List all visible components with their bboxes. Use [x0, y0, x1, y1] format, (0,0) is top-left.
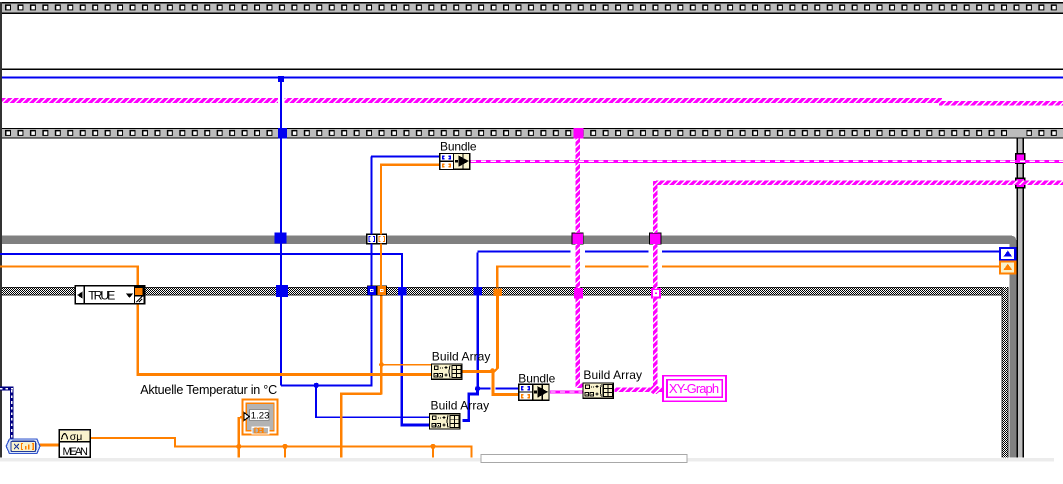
- junction blue dot: [314, 383, 319, 388]
- svg-text:XY-Graph: XY-Graph: [669, 381, 719, 396]
- junction orange dot thin branch: [379, 362, 384, 367]
- node build array 2: [583, 383, 613, 398]
- black structure edge line: [0, 68, 1063, 70]
- svg-text:Build Array: Build Array: [583, 368, 642, 382]
- wire orange right to shift register: [498, 265, 1001, 267]
- svg-text:1.23: 1.23: [251, 410, 270, 421]
- svg-text:Bundle: Bundle: [518, 371, 555, 385]
- shift register orange: [1000, 261, 1015, 273]
- wire blue right to shift register: [478, 251, 1001, 253]
- diagram left border: [0, 2, 2, 458]
- wire orange mean output bus: [91, 437, 177, 439]
- shift register blue: [1000, 248, 1015, 260]
- numeric control 1.23 DBL: [243, 400, 278, 436]
- wire blue from dot down: [315, 385, 317, 416]
- svg-text:Build Array: Build Array: [432, 349, 491, 363]
- tunnel blue large on case border: [276, 285, 288, 297]
- indexing tunnel blue bracket on loop bar: [367, 234, 377, 243]
- wire blue thick into build array 3: [400, 424, 429, 427]
- tunnel magenta hollow m5 on case border: [652, 289, 660, 298]
- wire orange queue to mean: [40, 443, 59, 446]
- wire blue into bundle1: [371, 155, 439, 157]
- junction blue dot 2: [475, 386, 480, 391]
- wire magenta vertical m2: [576, 139, 581, 233]
- node dequeue element: [6, 439, 40, 454]
- wire blue left long: [0, 253, 402, 255]
- indexing tunnel orange bracket on loop bar: [377, 234, 387, 243]
- node build array 1: [432, 364, 462, 379]
- flat sequence film band 2: [0, 129, 1063, 137]
- tunnel blue on film band 2: [278, 128, 287, 138]
- wire blue thin to build array 3: [315, 416, 429, 418]
- tunnel blue b8 on case border: [474, 287, 482, 295]
- wire orange down through selector tunnel: [137, 265, 139, 287]
- wire magenta thick into build array 2: [615, 387, 664, 392]
- tunnel orange on selector: [135, 287, 143, 296]
- wire orange build array 1 output: [462, 370, 493, 373]
- wire orange into bundle2: [492, 393, 519, 396]
- node build array 3: [430, 414, 460, 429]
- tunnel blue on loop top bar: [275, 233, 287, 244]
- wire blue dot2 to bundle2: [478, 388, 519, 390]
- while loop border gray: [0, 235, 1017, 457]
- wire orange left horizontal: [0, 265, 139, 267]
- wire orange into bundle1: [381, 164, 439, 166]
- gap for orange crossing: [491, 387, 496, 390]
- wire navy dashed queue refnum: [0, 387, 14, 439]
- case selector label: [75, 286, 144, 304]
- wire blue riser to bundle: [371, 295, 373, 385]
- junction magenta knot: [650, 385, 659, 394]
- junction orange dot bus 2: [282, 444, 287, 449]
- wire orange riser through tunnels: [380, 164, 382, 235]
- wire orange bus stubs: [238, 446, 240, 457]
- wire orange thick to build array 1: [137, 373, 432, 376]
- bottom scroll strip: [0, 458, 1054, 462]
- case structure right border: [1002, 287, 1009, 458]
- terminal xy-graph: [663, 376, 726, 401]
- svg-text:DBL: DBL: [254, 426, 267, 435]
- wire magenta thick top right: [941, 101, 1063, 106]
- tunnel magenta on separator lower: [1016, 178, 1025, 187]
- wire magenta thick top left: [0, 98, 941, 103]
- svg-text:TRUE: TRUE: [88, 289, 115, 303]
- svg-text:Aktuelle Temperatur in °C: Aktuelle Temperatur in °C: [140, 383, 277, 397]
- flat sequence frame separator vertical bar: [1017, 139, 1019, 458]
- wire magenta thin bundle1 output: [471, 160, 1063, 163]
- wire orange control terminal: [238, 417, 240, 447]
- wire blue horizontal top: [0, 77, 1063, 79]
- junction orange dot build array output: [490, 368, 495, 373]
- wire magenta vertical m5: [653, 181, 658, 233]
- coercion mark build array 2 input: [583, 390, 586, 394]
- tunnel magenta 1 on loop bar: [572, 233, 583, 244]
- junction blue top: [278, 76, 284, 82]
- wire orange thin to build array 1 top input: [382, 364, 432, 365]
- wire orange below case tunnel o3: [496, 296, 499, 369]
- wire magenta thin bundle2 to build array 2: [550, 390, 582, 393]
- svg-text:MEAN: MEAN: [63, 446, 88, 458]
- flat sequence film band 1 bottom edge: [0, 13, 1063, 14]
- tunnel magenta 2 on loop bar: [650, 233, 661, 244]
- svg-text:Bundle: Bundle: [440, 140, 477, 154]
- junction orange dot bus 3: [430, 444, 435, 449]
- node bundle 2: [519, 384, 549, 400]
- bottom white entry box: [481, 454, 687, 462]
- flat sequence film band 2 top edge: [0, 128, 1063, 129]
- wire blue build array 3 output zigzag: [462, 389, 479, 422]
- wire blue vertical from top junction: [280, 79, 282, 128]
- tunnel magenta m2 on case border: [574, 288, 583, 299]
- node bundle 1: [440, 154, 470, 170]
- tunnel magenta on film band 2: [574, 128, 584, 138]
- wire blue horizontal to riser: [281, 384, 373, 386]
- flat sequence film band 2 bottom edge: [0, 137, 1063, 138]
- tunnel orange small on case border: [377, 286, 386, 296]
- white clearance gaps at magenta crossings: [571, 250, 585, 256]
- flat sequence film band 1: [0, 3, 1063, 12]
- wire magenta thick m4 right: [656, 180, 1063, 185]
- tunnel blue small on case border: [367, 286, 376, 296]
- wire orange corner left and down: [340, 393, 382, 395]
- gap in magenta at blue crossing: [278, 98, 285, 104]
- wire magenta thick top jog: [939, 98, 942, 106]
- tunnel orange o3 on case border: [494, 288, 503, 296]
- svg-text:Build Array: Build Array: [431, 399, 490, 413]
- flat sequence film band 1 top edge: [0, 2, 1063, 3]
- node mean: [59, 430, 91, 458]
- tunnel magenta on separator upper: [1016, 154, 1025, 163]
- case structure top border: [0, 287, 1008, 295]
- tunnel blue b7 on case border: [398, 287, 406, 295]
- svg-text:σμ: σμ: [70, 431, 83, 443]
- junction orange dot control: [236, 444, 241, 449]
